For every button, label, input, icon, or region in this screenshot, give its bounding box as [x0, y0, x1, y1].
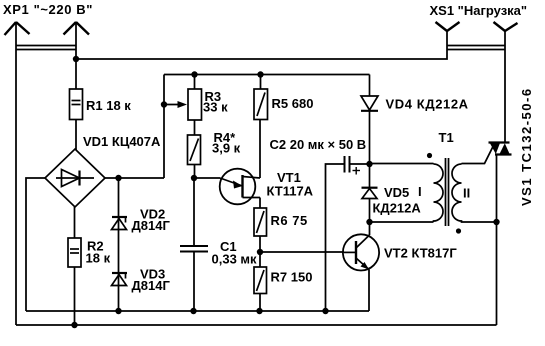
svg-text:VD1 КЦ407А: VD1 КЦ407А	[83, 134, 161, 149]
node junction C2/common rail	[322, 308, 328, 314]
wire R5 top lead	[260, 75, 262, 90]
triac VS1	[489, 31, 512, 325]
resistor R5	[254, 89, 268, 120]
capacitor C2 (electrolytic)	[345, 156, 361, 175]
svg-text:С2 20 мк × 50 В: С2 20 мк × 50 В	[270, 137, 367, 152]
resistor R3	[188, 89, 202, 120]
svg-text:II: II	[463, 186, 470, 201]
wire riser to top bus	[163, 75, 165, 179]
node junction at (76,59)	[73, 56, 79, 62]
svg-text:VD5: VD5	[384, 185, 409, 200]
node junction base tap	[257, 249, 263, 255]
wire R2 bottom lead	[74, 267, 76, 325]
wire R6-R7 lead	[259, 236, 261, 267]
svg-text:18 к: 18 к	[86, 251, 111, 266]
resistor R4	[188, 135, 201, 165]
svg-text:R6 75: R6 75	[271, 213, 308, 228]
resistor R1	[70, 89, 83, 120]
R3 wiper arrow	[164, 104, 178, 106]
XS1 cord double line	[447, 46, 505, 50]
diode VD5	[362, 164, 378, 222]
connector XP1 pin 1 (arrow)	[5, 22, 30, 35]
zener diode VD3	[112, 273, 128, 286]
wire XP1 pin2 stem / R1 top lead	[75, 23, 77, 89]
connector XS1 socket 2 (fork)	[494, 22, 518, 31]
svg-text:КТ117А: КТ117А	[267, 184, 314, 199]
svg-text:XS1 "Нагрузка": XS1 "Нагрузка"	[430, 3, 528, 18]
transformer T1 core	[446, 158, 449, 226]
wire left rail	[15, 23, 17, 325]
svg-text:R7 150: R7 150	[271, 270, 313, 285]
node junction C2/VD4/VD5	[366, 161, 372, 167]
node junction wiper tap	[161, 101, 167, 107]
wire VT2 base	[260, 251, 344, 253]
node polarity dot secondary	[456, 228, 461, 233]
node junction R5 top	[257, 71, 263, 77]
node junction R2/bottom rail	[71, 322, 77, 328]
node junction VD5/T1/VT2 collector	[366, 219, 372, 225]
capacitor C1	[180, 246, 208, 252]
bridge rectifier VD1	[45, 149, 105, 207]
zener diode VD2	[112, 217, 128, 230]
wire C2 right plate to node	[350, 163, 370, 165]
wire C1 bottom lead	[193, 252, 195, 312]
svg-text:VT2 КТ817Г: VT2 КТ817Г	[384, 246, 457, 261]
wire R4 bottom lead	[194, 165, 196, 179]
wire VD1 left corner to common rail	[26, 178, 45, 311]
node junction emitter/C1	[191, 175, 197, 181]
wire to T1 primary bottom	[370, 221, 434, 223]
wire VD1 right corner to riser	[105, 177, 164, 179]
wire R3 top lead	[194, 75, 196, 90]
wire R1 bottom lead	[75, 120, 77, 151]
node junction C1/common rail	[190, 308, 196, 314]
resistor R6	[254, 208, 267, 236]
transformer T1 secondary winding II	[452, 164, 497, 222]
wire C1 drop	[193, 178, 195, 246]
node junction R3 top	[191, 71, 197, 77]
wire R7 bottom lead	[259, 294, 261, 312]
wire VD1 bottom lead	[74, 207, 76, 238]
svg-text:3,9 к: 3,9 к	[212, 141, 241, 156]
transformer T1 primary winding I	[370, 164, 444, 223]
wire zener chain	[118, 178, 120, 311]
wire R3-R4 lead	[194, 120, 196, 135]
wire R5 bottom / VT1 b2 riser	[259, 120, 261, 179]
wire common rail y=311	[26, 310, 369, 312]
connector XS1 socket 1 (fork)	[436, 22, 460, 31]
svg-text:33 к: 33 к	[203, 100, 228, 115]
wire VT1 b1 drop	[259, 198, 261, 209]
resistor R7	[254, 267, 267, 294]
svg-text:XP1 "~220 В": XP1 "~220 В"	[3, 2, 93, 17]
wire top rail to XS1	[76, 31, 447, 59]
svg-text:0,33 мк: 0,33 мк	[212, 252, 258, 267]
svg-text:КД212А: КД212А	[373, 201, 422, 216]
svg-text:Д814Г: Д814Г	[132, 218, 171, 233]
svg-text:R1 18 к: R1 18 к	[86, 98, 131, 113]
svg-text:I: I	[418, 184, 422, 199]
wire top bus y=75	[164, 74, 370, 76]
svg-text:R5 680: R5 680	[272, 96, 314, 111]
resistor R2	[68, 238, 81, 267]
node polarity dot primary	[427, 153, 432, 158]
transistor VT2	[343, 222, 379, 311]
svg-text:Д814Г: Д814Г	[132, 278, 171, 293]
wire gate from T1 secondary top	[462, 143, 496, 164]
node junction zener chain/common rail	[115, 308, 121, 314]
wire C2 left plate to common rail	[326, 164, 345, 311]
transistor VT1 (unijunction)	[220, 169, 260, 205]
node junction T1 secondary/right rail	[493, 219, 499, 225]
node junction VD1+/zener chain	[115, 175, 121, 181]
svg-text:VD4 КД212А: VD4 КД212А	[386, 97, 469, 112]
wire bottom rail	[16, 324, 497, 326]
connector XP1 pin 2 (arrow)	[64, 22, 90, 35]
diode VD4	[361, 75, 378, 165]
wire VT1 emitter	[194, 177, 220, 179]
node junction R7/common rail	[256, 308, 262, 314]
XP1 cord double line	[16, 46, 76, 50]
svg-text:Т1: Т1	[439, 130, 454, 145]
svg-text:VS1 ТС132-50-6: VS1 ТС132-50-6	[519, 87, 534, 206]
